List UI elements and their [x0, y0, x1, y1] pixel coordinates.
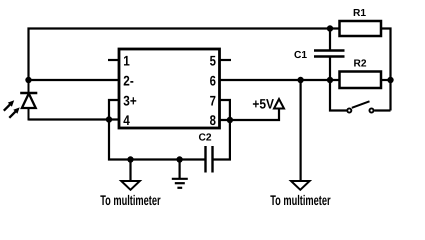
- resistor R1: [340, 8, 382, 36]
- node photodiode top: [25, 77, 31, 83]
- svg-text:R1: R1: [353, 8, 366, 19]
- pin 8 label: [210, 112, 216, 128]
- switch S1: [347, 101, 373, 112]
- node pin6 branch: [297, 77, 303, 83]
- wire ground bus: [109, 120, 206, 160]
- wire C1 upper: [329, 29, 331, 51]
- node pins 3-4: [106, 116, 112, 122]
- pin 5 label: [210, 52, 216, 68]
- label To multimeter right: [270, 192, 331, 208]
- svg-text:+5V: +5V: [252, 96, 274, 111]
- wire pin4: [29, 118, 120, 120]
- wire switch right: [374, 109, 390, 111]
- svg-text:8: 8: [210, 112, 216, 128]
- wire switch left: [330, 80, 347, 111]
- node R2 right: [387, 77, 393, 83]
- wire top rail: [29, 29, 340, 81]
- pin 4 label: [123, 112, 130, 128]
- wire pin2: [29, 79, 120, 81]
- node C1 bottom: [327, 77, 333, 83]
- pin 3 label: [123, 92, 136, 108]
- svg-text:6: 6: [210, 72, 216, 88]
- node top C1: [327, 25, 333, 31]
- pin 6 label: [210, 72, 216, 88]
- node multimeter right arrow: [291, 181, 310, 190]
- wire pin7 jumper: [220, 100, 230, 120]
- pin 7 label: [210, 92, 216, 108]
- node ground bus left: [127, 156, 133, 162]
- svg-text:R2: R2: [353, 59, 366, 70]
- svg-text:1: 1: [123, 52, 130, 68]
- svg-text:2-: 2-: [123, 72, 134, 88]
- capacitor C2: [198, 133, 212, 173]
- node ground bus mid: [176, 156, 182, 162]
- node pin8: [227, 117, 233, 123]
- svg-text:To multimeter: To multimeter: [270, 192, 331, 208]
- wire R2 right: [381, 79, 391, 81]
- svg-text:7: 7: [210, 92, 216, 108]
- wire multimeter right branch: [300, 80, 302, 181]
- photodiode D1: [4, 80, 38, 121]
- node +5V arrow: [274, 99, 284, 109]
- resistor R2: [340, 59, 382, 88]
- wire pin6: [220, 79, 340, 81]
- wire right rail: [381, 29, 391, 111]
- wire C2 to pin8 node: [213, 120, 230, 160]
- svg-text:3+: 3+: [123, 92, 136, 108]
- svg-text:5: 5: [210, 52, 216, 68]
- op-amp U1: [119, 49, 220, 128]
- wire C1 lower: [329, 57, 331, 80]
- wire pin8: [220, 109, 280, 121]
- svg-text:To multimeter: To multimeter: [100, 192, 161, 208]
- wire pin5 stub: [220, 59, 232, 61]
- pin 2 label: [123, 72, 134, 88]
- wire pin1 stub: [108, 59, 119, 61]
- ground: [172, 160, 188, 188]
- label +5V: [252, 96, 274, 111]
- svg-text:C2: C2: [198, 133, 211, 144]
- svg-text:4: 4: [123, 112, 130, 128]
- node multimeter left arrow: [121, 181, 140, 190]
- wire pin3 stub: [109, 100, 119, 120]
- label To multimeter left: [100, 192, 161, 208]
- pin 1 label: [123, 52, 130, 68]
- wire multimeter left branch: [129, 160, 131, 182]
- capacitor C1: [294, 50, 345, 61]
- svg-text:C1: C1: [294, 50, 307, 61]
